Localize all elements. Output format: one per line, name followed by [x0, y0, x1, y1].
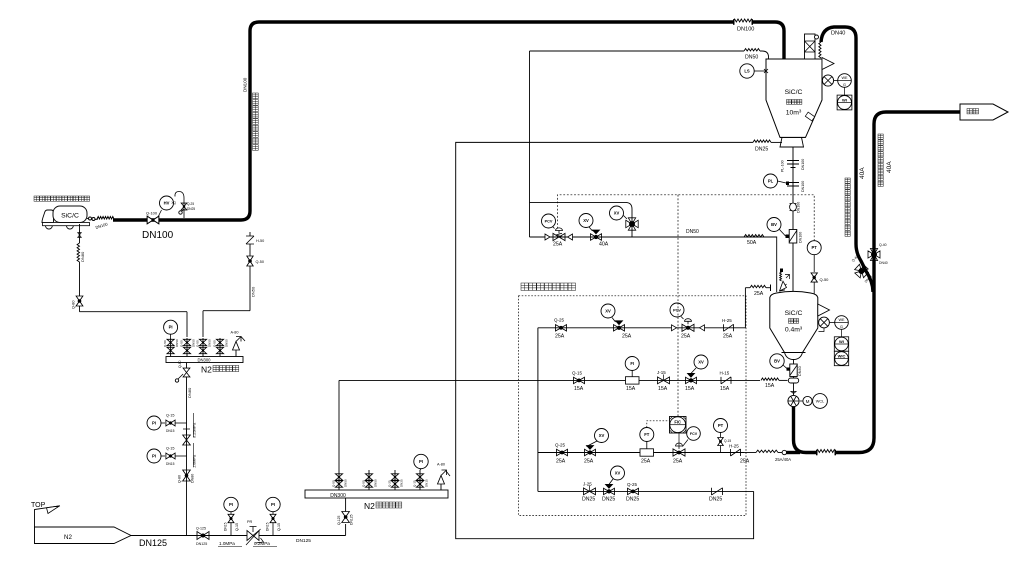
wire DN125 riser to header2 [345, 524, 347, 536]
svg-text:Q-15: Q-15 [413, 480, 417, 487]
flex hose coil DN100 [95, 218, 98, 221]
flow element orifice row3 [640, 449, 654, 456]
wire row4 [538, 490, 754, 492]
svg-text:PT: PT [718, 423, 724, 428]
instrument WE big silo [834, 80, 839, 82]
svg-text:40A: 40A [599, 242, 609, 248]
svg-text:H-50: H-50 [256, 239, 264, 243]
svg-text:PI: PI [169, 325, 173, 330]
svg-text:Q-50: Q-50 [256, 260, 264, 264]
svg-text:Q-15: Q-15 [277, 523, 281, 531]
pressure regulator on DN80 line [183, 435, 191, 445]
valve XV row2 with actuator [686, 377, 697, 383]
vibrator triangle big silo [822, 58, 834, 70]
wire from check to valve [249, 244, 251, 256]
drain fitting [78, 233, 82, 238]
svg-text:DN15: DN15 [166, 462, 175, 466]
wire discharge drop [792, 147, 794, 291]
signal dashed PCV-PT [557, 195, 814, 241]
svg-text:SiC/C: SiC/C [785, 310, 803, 317]
svg-text:Q-15: Q-15 [235, 523, 239, 531]
control valve FCV row3 [673, 449, 685, 456]
svg-text:DN125: DN125 [139, 538, 167, 548]
instrument HV [158, 210, 162, 217]
wire PCV vent row [530, 236, 777, 238]
svg-text:DN25: DN25 [709, 497, 722, 503]
valve Q-50 on DN50 branch [247, 256, 253, 266]
svg-text:25A: 25A [723, 334, 733, 340]
wire drain to valve [79, 262, 81, 296]
instrument M motor [800, 400, 803, 402]
control valve PCV row1 [682, 324, 694, 331]
wire vent upper bypass [530, 202, 633, 237]
pipe cap tee at dome [770, 285, 772, 292]
wire row3 [538, 452, 744, 454]
svg-text:15A: 15A [658, 386, 668, 392]
svg-text:15A: 15A [720, 386, 730, 392]
svg-text:25A: 25A [556, 459, 566, 465]
valve XV row3 with actuator [585, 449, 596, 455]
wire row4 loop around to big silo fluidizing DN25 [456, 142, 754, 538]
svg-text:PI: PI [152, 421, 156, 426]
flex coil DN50 top [744, 49, 760, 51]
svg-text:DN80: DN80 [191, 474, 195, 483]
flex coil DN80 on drain [77, 243, 79, 262]
reducer into PCV vent [545, 234, 550, 240]
check valve H-15 row2 [721, 377, 731, 384]
instrument FCV circle [687, 427, 701, 441]
svg-text:DN25: DN25 [582, 497, 595, 503]
svg-text:XV: XV [583, 218, 589, 223]
instrument WIC square small silo [834, 351, 848, 365]
svg-text:Q-25: Q-25 [627, 482, 638, 487]
small silo bottom bowl [782, 353, 806, 360]
svg-text:DN300: DN300 [197, 357, 211, 362]
svg-text:DN50: DN50 [745, 55, 758, 61]
svg-text:PI: PI [152, 454, 156, 459]
instrument PT small silo with root valve Q-50 [807, 241, 821, 255]
svg-text:DN100: DN100 [142, 230, 174, 241]
vibrator triangle small silo [818, 304, 830, 316]
valve XV 4-way on bypass branch [626, 218, 638, 230]
tanker wheels [46, 226, 53, 229]
valve station internal bus [537, 328, 539, 492]
wire DN125 main [131, 535, 346, 537]
instrument PI upper with root valve [147, 416, 161, 430]
svg-text:FIC: FIC [674, 419, 681, 424]
wire DN50 silo vent from top [529, 51, 531, 237]
valve XV row1 with actuator [614, 325, 625, 331]
svg-text:M: M [806, 399, 810, 404]
svg-text:25A: 25A [584, 459, 594, 465]
svg-text:40A: 40A [886, 161, 893, 173]
svg-text:G: G [840, 325, 843, 329]
valve J-25 row4 [584, 488, 596, 495]
svg-text:DN100: DN100 [797, 202, 801, 213]
svg-text:1.0MPa: 1.0MPa [193, 454, 197, 468]
vertical CJK label: tanker unloading powder conveying pipe [253, 93, 259, 99]
svg-text:15A: 15A [574, 386, 584, 392]
svg-text:DN50: DN50 [344, 479, 348, 487]
wire N2 from header2 to ejector row [338, 380, 340, 470]
svg-text:J-25: J-25 [583, 482, 592, 487]
svg-text:BV: BV [771, 222, 777, 227]
svg-text:DN80: DN80 [187, 387, 192, 398]
svg-text:25A: 25A [754, 291, 764, 297]
svg-text:25A/40A: 25A/40A [775, 457, 791, 462]
instrument WI square big silo [837, 95, 852, 110]
check valve H-25 row3 [731, 449, 741, 456]
svg-text:15A: 15A [685, 386, 695, 392]
wire drain to N2 header assembly 2 [79, 306, 81, 312]
svg-text:PI: PI [229, 502, 233, 507]
wire tanker drain down [79, 224, 81, 243]
svg-text:DN125: DN125 [196, 542, 207, 546]
small silo body with dome [770, 291, 818, 352]
relief valve on dome [780, 284, 787, 291]
label: tanker with hose and coupling (CJK) [34, 196, 39, 201]
wire: DN40 filter vent line (thick) [821, 27, 873, 292]
svg-text:Q-80: Q-80 [72, 301, 76, 309]
svg-text:WI: WI [842, 98, 847, 103]
svg-text:Q-50: Q-50 [196, 340, 200, 347]
dark valve on DN40 diagonal [853, 263, 870, 280]
svg-text:DN100: DN100 [737, 27, 754, 33]
double valve assembly 3 on header1 [202, 338, 204, 357]
instrument FIC square [670, 417, 687, 434]
svg-text:WE: WE [838, 318, 845, 322]
valve Q-125 on DN125 [197, 532, 209, 540]
svg-text:BV: BV [774, 359, 780, 364]
instrument LS level switch [740, 64, 754, 78]
svg-text:Q-15: Q-15 [166, 414, 174, 418]
valve Q-25 row4 [628, 488, 639, 494]
svg-text:DN50: DN50 [208, 339, 212, 347]
svg-text:Q-15: Q-15 [724, 439, 731, 443]
flex coil filter to DN40 [819, 42, 821, 58]
check valve H-25 row1 [724, 324, 734, 331]
svg-text:DN50: DN50 [374, 479, 378, 487]
wire: main powder conveying pipe DN100 from tanker to big silo (thick) [113, 22, 784, 220]
svg-text:Q-80: Q-80 [178, 475, 182, 483]
flag symbol [35, 506, 61, 543]
svg-text:PCV: PCV [545, 220, 553, 224]
svg-text:XV: XV [698, 360, 704, 365]
svg-text:DN50: DN50 [175, 339, 179, 347]
svg-text:25A: 25A [740, 459, 750, 465]
vertical CJK label left riser: tanker powder nitrogen purge line [845, 178, 850, 183]
svg-text:WCL: WCL [816, 400, 824, 404]
flex joint on discharge run [817, 449, 835, 456]
wire DN50 branch down-left to N2 header [249, 266, 251, 311]
svg-text:15A: 15A [626, 386, 636, 392]
flow indicator FI with orifice row2 [626, 377, 640, 384]
tanker tank SiC/C [53, 206, 87, 223]
tanker truck cab [42, 210, 54, 223]
svg-text:Q-15: Q-15 [572, 371, 583, 376]
svg-text:DN125: DN125 [296, 538, 311, 544]
svg-text:G: G [843, 83, 846, 87]
svg-text:DN40: DN40 [798, 366, 802, 376]
svg-text:XQ: XQ [171, 201, 176, 205]
instrument PI 2 on DN125 [266, 497, 280, 511]
flex coil 50A [744, 235, 764, 237]
flex coil 15A into ejector [761, 378, 779, 380]
svg-text:25A: 25A [681, 334, 691, 340]
svg-text:PT: PT [812, 245, 818, 250]
knife gate valve DN100 with BV [789, 230, 797, 244]
svg-text:PL: PL [768, 179, 774, 184]
svg-text:Q-50: Q-50 [332, 480, 336, 487]
wire row1 [538, 327, 746, 329]
svg-text:H-15: H-15 [720, 371, 730, 376]
instrument PI lower with root valve [147, 449, 161, 463]
reducer out PCV row1 [700, 325, 705, 331]
inline damper DN100 [790, 204, 797, 211]
double valve assembly 2 on header1 [186, 338, 188, 357]
svg-text:DN25: DN25 [602, 497, 615, 503]
flange pair PL-100 [787, 161, 799, 168]
instrument PL [764, 174, 778, 188]
svg-text:DN100: DN100 [801, 181, 805, 192]
svg-text:25A: 25A [555, 334, 565, 340]
svg-text:J-15: J-15 [657, 370, 666, 375]
label: integrated valve station system (CJK) [521, 283, 528, 290]
wire: conveying discharge thick line from ejector up to receiving bin [794, 112, 961, 453]
svg-text:DN100: DN100 [799, 232, 803, 243]
reducer out PCV vent [568, 234, 573, 240]
wire FT to FIC (signal) [647, 421, 670, 428]
svg-text:DN50: DN50 [686, 229, 699, 235]
svg-text:DN15: DN15 [166, 429, 175, 433]
rotary star feeder [791, 392, 796, 394]
receiving bin arrow flag [960, 104, 1008, 120]
svg-text:DN15: DN15 [425, 479, 429, 487]
svg-text:0.25MPa: 0.25MPa [193, 422, 197, 438]
svg-text:PCV: PCV [673, 309, 681, 313]
svg-text:DN100: DN100 [801, 159, 805, 170]
svg-text:HV: HV [164, 201, 170, 206]
svg-text:DN300: DN300 [330, 493, 346, 499]
wire DN80 down to PRV station [186, 377, 188, 536]
svg-text:25A: 25A [641, 459, 651, 465]
svg-text:DN40: DN40 [831, 31, 845, 37]
reducer into PCV row1 [672, 325, 677, 331]
wire row3 exit flex 25A/40A [744, 452, 756, 454]
svg-text:H-25: H-25 [722, 318, 732, 323]
valve Q-25 row3 [557, 449, 568, 455]
svg-text:Q-50: Q-50 [163, 340, 167, 347]
double valve assembly 4 on header1 [219, 338, 221, 357]
svg-text:Q-50: Q-50 [213, 340, 217, 347]
svg-text:Q-50: Q-50 [180, 340, 184, 347]
instrument PI 1 on DN125 [224, 497, 238, 511]
big silo body [766, 59, 822, 137]
valve Q-80 on drain [76, 296, 83, 306]
svg-text:25A: 25A [622, 334, 632, 340]
svg-text:DN15: DN15 [224, 522, 228, 531]
svg-text:XV: XV [605, 309, 611, 314]
svg-text:Q-125: Q-125 [196, 527, 206, 531]
wire vent down into small silo dome [764, 237, 777, 292]
instrument BV small silo with link [770, 354, 784, 368]
svg-text:Q-50: Q-50 [820, 277, 830, 282]
check valve H-50 [246, 236, 254, 244]
valve set 1 on header2 [338, 470, 340, 490]
valve station dashed boundary [519, 296, 747, 516]
svg-text:0.4m³: 0.4m³ [785, 327, 803, 334]
svg-text:WI: WI [839, 339, 844, 344]
svg-text:PI: PI [271, 502, 275, 507]
svg-text:XV: XV [615, 471, 621, 476]
wire row1 up to small silo dome purge [744, 288, 746, 328]
svg-text:DN25: DN25 [626, 497, 639, 503]
header2 bar DN300 [305, 490, 448, 498]
svg-text:FCV: FCV [690, 432, 698, 436]
control valve PCV vent [553, 233, 565, 240]
valve set 3 on header2 [394, 470, 396, 490]
svg-text:FI: FI [630, 361, 634, 366]
valve XV (circle-X) big silo side [822, 75, 833, 86]
svg-text:0.2MPa: 0.2MPa [254, 541, 270, 546]
svg-text:Q-25: Q-25 [388, 480, 392, 487]
instrument PT row3 with root valve [714, 419, 728, 433]
svg-text:DN100: DN100 [243, 77, 248, 92]
valve Q-80 below header1 with bleed [186, 363, 188, 369]
svg-text:25A: 25A [553, 242, 563, 248]
flex coil DN25 at big silo outlet [753, 140, 771, 142]
valve J-15 row2 [658, 377, 670, 384]
svg-text:H-25: H-25 [729, 444, 739, 449]
double valve assembly 1 on header1 [170, 338, 172, 357]
valve set 2 on header2 [368, 470, 370, 490]
big silo outlet skirt [780, 137, 806, 147]
svg-text:N2: N2 [364, 501, 375, 511]
svg-text:A-80: A-80 [437, 463, 445, 467]
flex coil 25A purge [750, 285, 766, 287]
svg-text:XV: XV [599, 433, 605, 438]
valve Q-15 row2 [574, 377, 585, 383]
valve XV circle-X small silo [819, 317, 830, 328]
svg-text:DN40: DN40 [879, 261, 888, 265]
svg-text:WE: WE [841, 76, 848, 80]
valve Q-125 below header2 [342, 512, 350, 523]
vertical CJK label right riser: blow tank to degassing powder conveying line [878, 134, 883, 139]
N2 supply arrow [35, 527, 132, 544]
instrument PI above header1 [164, 320, 178, 334]
svg-text:DN15: DN15 [266, 522, 270, 531]
check valve DN25 row4 [712, 488, 723, 495]
svg-text:N2: N2 [64, 534, 72, 541]
valve XV 40A on vent [591, 234, 602, 240]
svg-text:Q-25: Q-25 [554, 318, 565, 323]
svg-text:WIC: WIC [838, 354, 846, 359]
dark valve on discharge riser [868, 249, 880, 261]
svg-text:A-80: A-80 [231, 331, 239, 335]
header1 bar DN300 [166, 357, 243, 363]
svg-text:1.0MPa: 1.0MPa [219, 541, 235, 546]
svg-text:Q-100: Q-100 [146, 211, 158, 216]
level nozzle on cone [805, 112, 814, 121]
svg-text:Q-40: Q-40 [879, 243, 887, 247]
instrument WE/G small silo [829, 322, 834, 324]
knife gate DN40 below small silo [793, 360, 795, 365]
svg-text:50A: 50A [747, 240, 757, 246]
svg-text:N2: N2 [201, 365, 212, 375]
hose coupling at tank outlet [87, 218, 92, 220]
svg-text:PI: PI [419, 459, 423, 464]
svg-text:25A: 25A [673, 459, 683, 465]
bag filter on big silo top [805, 34, 816, 59]
svg-text:Q-125: Q-125 [337, 515, 341, 525]
valve set 4 on header2 [419, 470, 421, 490]
signal dashed to FIC [677, 195, 679, 417]
instrument WI square small silo [834, 337, 848, 351]
svg-text:Q-80: Q-80 [178, 360, 182, 368]
valve Q-25 row1 [556, 325, 567, 331]
valve Q-80 lower on DN80 drop [183, 470, 191, 481]
svg-text:40A: 40A [859, 167, 866, 179]
vent gooseneck assembly [175, 192, 184, 219]
svg-text:Q-15: Q-15 [166, 447, 174, 451]
svg-text:XV: XV [614, 211, 620, 216]
ejector capsule [793, 377, 795, 379]
svg-text:FT: FT [644, 432, 650, 437]
instrument PI on header2 set4 [414, 454, 428, 468]
svg-text:Q-50: Q-50 [362, 480, 366, 487]
svg-text:DN125: DN125 [350, 514, 354, 525]
tanker chassis bar [43, 223, 90, 226]
wire DN50 silo top vent line [530, 50, 745, 52]
svg-text:DN50: DN50 [225, 339, 229, 347]
svg-text:Q-25: Q-25 [555, 443, 566, 448]
svg-text:DN25: DN25 [400, 479, 404, 487]
svg-text:Q-25: Q-25 [187, 202, 194, 206]
svg-text:PR: PR [247, 520, 253, 524]
svg-text:SiC/C: SiC/C [61, 213, 79, 220]
svg-text:DN80: DN80 [80, 251, 85, 262]
svg-text:DN25: DN25 [755, 147, 768, 153]
flex joint on DN100 top run [734, 19, 752, 26]
valve XV row4 with actuator [604, 488, 615, 494]
svg-text:15A: 15A [765, 383, 775, 389]
svg-text:DN50: DN50 [251, 286, 256, 297]
svg-text:LS: LS [744, 69, 750, 74]
svg-text:DN25: DN25 [187, 207, 195, 211]
svg-text:SiC/C: SiC/C [785, 89, 803, 96]
valve Q-100 on loading line [147, 216, 159, 224]
svg-text:10m³: 10m³ [786, 110, 802, 117]
wire ejector down to rotary star [793, 383, 795, 395]
svg-text:PL-100: PL-100 [781, 160, 785, 172]
instrument WCL [813, 394, 828, 409]
